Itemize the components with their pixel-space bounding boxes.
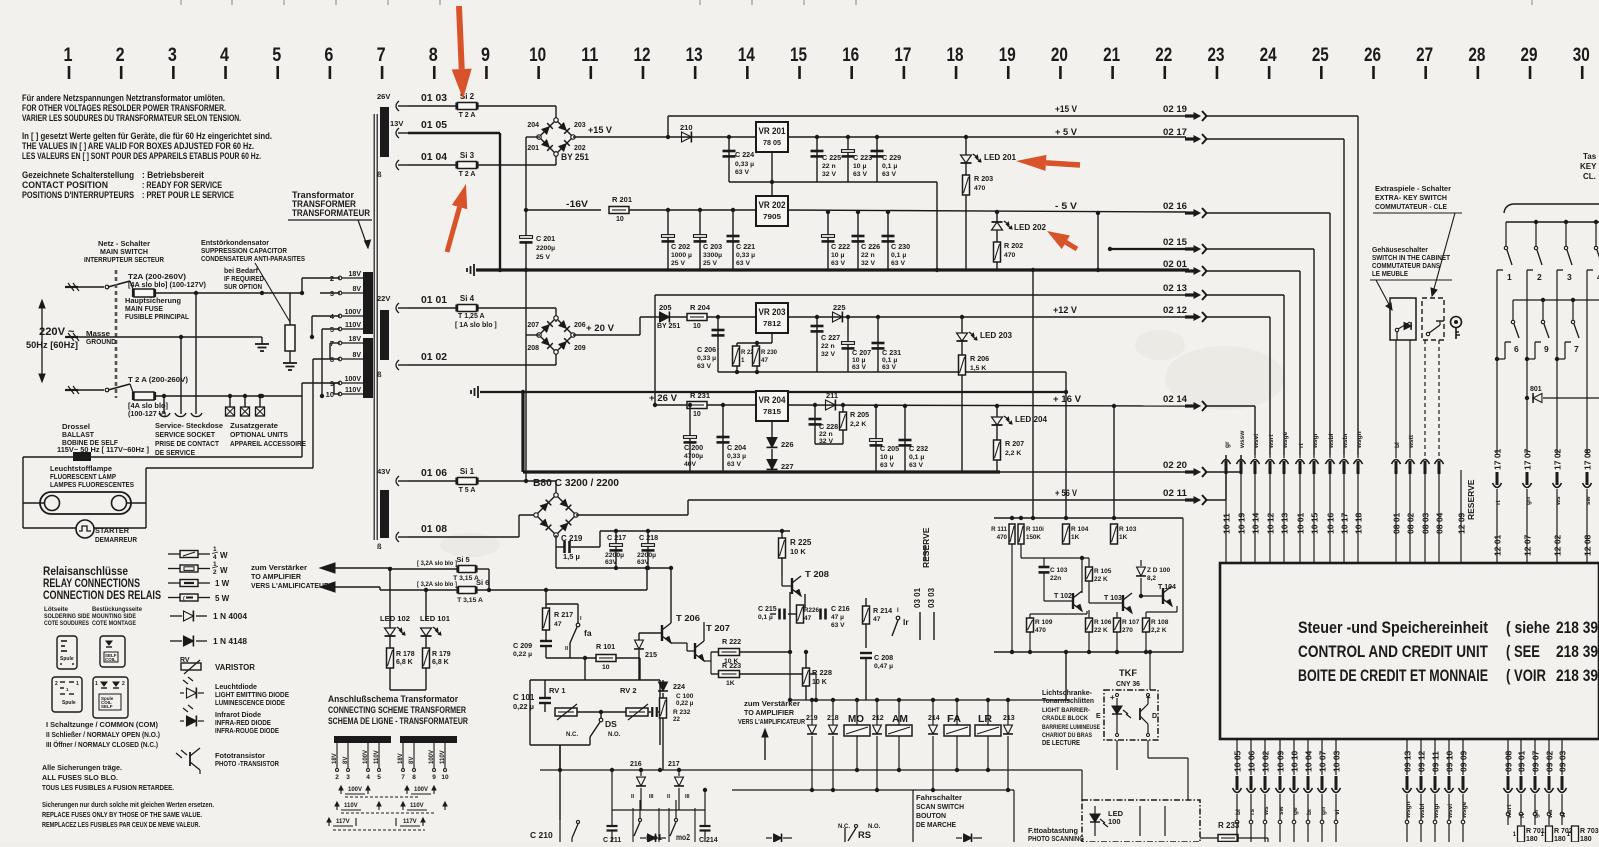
svg-text:215: 215 [645, 650, 657, 659]
svg-text:180: 180 [1554, 836, 1566, 842]
svg-text:110V: 110V [410, 803, 424, 809]
capacitor C217 [614, 529, 618, 533]
wire 0220 from bus [1200, 471, 1202, 473]
svg-text:8,2: 8,2 [1147, 575, 1156, 582]
svg-text:7905: 7905 [763, 212, 781, 221]
svg-text:63 V: 63 V [736, 260, 750, 267]
svg-text:+15 V: +15 V [588, 125, 613, 136]
svg-text:63V: 63V [637, 559, 650, 566]
svg-text:2: 2 [55, 681, 58, 687]
svg-text:3: 3 [168, 45, 177, 66]
svg-text:II: II [565, 646, 569, 652]
capacitor C230 [886, 210, 890, 214]
legend LED [187, 688, 197, 699]
svg-text:27: 27 [1416, 45, 1433, 66]
svg-text:N.C.: N.C. [566, 732, 578, 738]
svg-text:SUR OPTION: SUR OPTION [224, 282, 262, 291]
svg-text:R 203: R 203 [974, 174, 993, 183]
svg-text:R 107: R 107 [1122, 619, 1140, 626]
svg-text:1,5 µ: 1,5 µ [563, 552, 580, 561]
svg-text:LED 201: LED 201 [984, 153, 1017, 162]
svg-text:ge: ge [1292, 807, 1299, 815]
svg-text:10 04: 10 04 [1304, 750, 1314, 772]
capacitor C103 [1043, 558, 1045, 567]
svg-text:wsge: wsge [1461, 801, 1468, 819]
svg-text:C 207: C 207 [852, 348, 871, 357]
svg-text:17 02: 17 02 [1553, 448, 1563, 470]
svg-text:VERS L'AMLIFICATEUR: VERS L'AMLIFICATEUR [251, 581, 330, 590]
svg-text:201: 201 [527, 145, 539, 152]
keyboard mid bus [1513, 299, 1599, 301]
svg-text:C 203: C 203 [703, 242, 722, 251]
svg-text:T 3,15 A: T 3,15 A [457, 597, 483, 604]
svg-text:270: 270 [1122, 627, 1133, 634]
svg-text:TRANSFORMATEUR: TRANSFORMATEUR [292, 208, 370, 219]
svg-text:32 V: 32 V [822, 171, 836, 178]
svg-text:II Schließer / NORMALY OPEN (: II Schließer / NORMALY OPEN (N.O.) [46, 732, 160, 739]
svg-text:17 07: 17 07 [1523, 448, 1533, 470]
svg-text:gn: gn [1525, 497, 1532, 505]
svg-text:LED 101: LED 101 [420, 614, 450, 623]
svg-text:rt: rt [1495, 499, 1502, 505]
svg-text:II: II [667, 794, 671, 800]
svg-text:6: 6 [1514, 344, 1519, 354]
svg-text:ws: ws [1263, 806, 1270, 816]
svg-text:( VOIR: ( VOIR [1506, 667, 1546, 685]
svg-text:LED 203: LED 203 [980, 331, 1013, 340]
svg-text:24: 24 [1260, 45, 1277, 66]
svg-text:03 03: 03 03 [927, 587, 936, 608]
LED 204 [995, 404, 999, 408]
svg-text:09 09: 09 09 [1459, 750, 1469, 772]
svg-text:+15 V: +15 V [1055, 104, 1078, 115]
svg-text:wsge: wsge [1282, 431, 1289, 449]
svg-text:210: 210 [680, 123, 693, 132]
svg-text:01 05: 01 05 [421, 120, 447, 131]
svg-text:10 K: 10 K [790, 547, 806, 556]
svg-text:DE MARCHE: DE MARCHE [916, 820, 956, 829]
svg-text:Si 1: Si 1 [460, 467, 475, 476]
svg-text:R 178: R 178 [396, 651, 415, 658]
svg-text:R 204: R 204 [690, 303, 711, 312]
control and credit unit box [1220, 563, 1599, 739]
svg-text:25 V: 25 V [671, 260, 685, 267]
svg-text:Relaisanschlüsse: Relaisanschlüsse [43, 566, 128, 578]
svg-text:T 208: T 208 [805, 569, 829, 579]
main switch contact top [105, 285, 109, 289]
wire tap5 110V [321, 329, 323, 396]
svg-text:N.O.: N.O. [608, 732, 621, 738]
svg-text:TO AMPLIFIER: TO AMPLIFIER [251, 572, 302, 581]
svg-text:CONNECTION DES RELAIS: CONNECTION DES RELAIS [43, 590, 161, 602]
svg-text:5: 5 [377, 774, 381, 781]
switch fa [577, 604, 579, 623]
svg-text:214: 214 [928, 715, 940, 722]
connector column 10 03 below [1335, 739, 1337, 775]
svg-text:R 207: R 207 [1005, 439, 1024, 448]
capacitor C224 [727, 135, 731, 139]
svg-text:ß: ß [377, 370, 382, 379]
svg-text:W: W [220, 551, 228, 560]
svg-text:10: 10 [616, 216, 624, 223]
wire -5V rail out [788, 210, 1186, 212]
wire tap junctions mains [154, 292, 320, 294]
wire R217 tap [544, 588, 548, 592]
svg-text:C 219: C 219 [561, 534, 583, 543]
svg-text:02 12: 02 12 [1163, 305, 1187, 316]
svg-text:8V: 8V [409, 757, 415, 764]
diode arrow bottom 2 [774, 834, 782, 843]
svg-text:+ 20 V: + 20 V [586, 323, 615, 334]
VR204 ground pin diodes 226 227 [771, 421, 773, 437]
svg-text:Sicherungen nur durch solche m: Sicherungen nur durch solche mit gleiche… [42, 802, 214, 809]
svg-text:16: 16 [842, 45, 859, 66]
svg-text:ß: ß [377, 542, 382, 551]
svg-text:+: + [1110, 693, 1115, 702]
svg-text:R 231: R 231 [690, 391, 710, 400]
capacitor C228 [813, 403, 817, 407]
svg-text:12 08: 12 08 [1583, 534, 1593, 556]
rail 652 for T10x block [994, 651, 1183, 653]
svg-text:32 V: 32 V [821, 351, 835, 358]
bridge rectifier BY251 top [539, 120, 573, 154]
resistor R226 [797, 605, 804, 623]
connector column 10 09 below [1279, 739, 1281, 775]
svg-text:63 V: 63 V [891, 260, 905, 267]
schema 100V link right [406, 786, 408, 794]
wire y770 into LED100 box [1081, 770, 1083, 800]
svg-text:02 15: 02 15 [1163, 237, 1188, 248]
wire +16V rail [788, 405, 1186, 406]
legend resistor 1 W [168, 582, 180, 584]
svg-text:47: 47 [873, 616, 881, 623]
svg-text:T 207: T 207 [706, 623, 730, 633]
wire T207 collector [703, 622, 705, 641]
svg-text:ws: ws [1555, 496, 1562, 506]
svg-text:R 111: R 111 [991, 526, 1007, 533]
svg-text:C 218: C 218 [639, 533, 658, 542]
svg-text:10 05: 10 05 [1233, 750, 1243, 772]
svg-text:T 2 A (200-260V): T 2 A (200-260V) [128, 375, 189, 384]
svg-text:+ 5 V: + 5 V [1055, 127, 1078, 138]
connector column 09 10 below [1448, 739, 1450, 775]
capacitor C231 [876, 315, 880, 319]
svg-text:: PRET POUR LE SERVICE: : PRET POUR LE SERVICE [142, 190, 234, 201]
svg-text:C 227: C 227 [821, 333, 840, 342]
svg-text:R 103: R 103 [1119, 526, 1137, 533]
svg-text:2: 2 [335, 774, 339, 781]
svg-text:R 105: R 105 [1094, 568, 1112, 575]
svg-text:01 01: 01 01 [421, 295, 447, 306]
wire 56V filter rail [599, 531, 601, 547]
svg-text:2: 2 [116, 45, 125, 66]
svg-text:204: 204 [527, 122, 539, 129]
svg-text:17 01: 17 01 [1493, 448, 1503, 470]
capacitor C200 [688, 403, 692, 407]
svg-text:T 5 A: T 5 A [459, 487, 476, 494]
relay pin box C [52, 677, 82, 712]
svg-text:25 V: 25 V [703, 260, 717, 267]
svg-text:470: 470 [1004, 252, 1016, 259]
svg-text:217: 217 [668, 761, 680, 768]
svg-text:09 11: 09 11 [1431, 751, 1441, 772]
svg-text:18V: 18V [349, 271, 362, 278]
svg-text:C 208: C 208 [874, 653, 893, 662]
svg-text:63 V: 63 V [697, 363, 711, 370]
svg-text:801: 801 [1530, 386, 1542, 393]
svg-text:18: 18 [947, 45, 964, 66]
svg-text:BOITE DE CREDIT ET MONNAIE: BOITE DE CREDIT ET MONNAIE [1298, 667, 1488, 685]
regulator VR202 [756, 196, 788, 226]
switch 3 [1564, 220, 1568, 224]
svg-text:wsgr: wsgr [1433, 802, 1440, 819]
svg-text:Fahrschalter: Fahrschalter [916, 793, 962, 802]
primary winding bar 1 [363, 272, 373, 334]
wire tap7 tap8 bracket [330, 342, 340, 344]
svg-text:02 20: 02 20 [1163, 460, 1187, 471]
svg-text:22 n: 22 n [819, 431, 833, 438]
capacitor C225 [815, 135, 819, 139]
keyboard switch columns [1496, 270, 1498, 455]
wire 0104 to bridge [555, 151, 557, 165]
svg-text:02 13: 02 13 [1163, 283, 1187, 294]
svg-text:0,22 µ: 0,22 µ [513, 702, 534, 711]
svg-text:OPTIONAL UNITS: OPTIONAL UNITS [230, 430, 288, 439]
svg-text:wsvi: wsvi [1447, 804, 1454, 819]
wire TKF down wires [1082, 769, 1117, 771]
switch 2 [1534, 220, 1538, 224]
svg-text:STARTER: STARTER [95, 526, 130, 535]
orange arrow pointing left at LED 201 [1016, 155, 1046, 171]
svg-text:03 01: 03 01 [913, 587, 922, 608]
wire 0102 to bridge [408, 364, 556, 366]
svg-text:MOUNTING SIDE: MOUNTING SIDE [92, 613, 137, 620]
connector column 10 07 below [1321, 739, 1323, 775]
svg-text:1: 1 [1507, 272, 1512, 282]
svg-text:VERS L'AMPLIFICATEUR: VERS L'AMPLIFICATEUR [738, 719, 805, 726]
svg-text:Alle Sicherungen träge.: Alle Sicherungen träge. [42, 763, 122, 772]
svg-text:02 17: 02 17 [1163, 127, 1187, 138]
svg-text:C 205: C 205 [880, 444, 899, 453]
schema 110V link left [336, 802, 338, 810]
switch lr [896, 616, 900, 620]
wire lamp feed 2 [312, 359, 314, 468]
svg-text:22V: 22V [377, 294, 390, 303]
switch ds2 bottom [576, 820, 579, 823]
svg-text:( SEE: ( SEE [1506, 643, 1540, 661]
svg-text:209: 209 [574, 345, 586, 352]
svg-text:180: 180 [1580, 836, 1592, 842]
arrow up to amplifier [764, 735, 766, 760]
capacitor C204 [721, 403, 725, 407]
svg-text:470: 470 [997, 534, 1008, 541]
svg-text:R 108: R 108 [1151, 619, 1169, 626]
svg-text:117V: 117V [336, 819, 350, 825]
svg-text:+ 56 V: + 56 V [1055, 488, 1078, 499]
legend resistor half W [168, 568, 180, 570]
svg-text:T 2 A: T 2 A [459, 112, 476, 119]
switch DS [600, 712, 602, 718]
cabinet switch contact [1395, 328, 1398, 331]
svg-text:21: 21 [1103, 45, 1120, 66]
resistor R179 [423, 648, 430, 668]
secondary winding bar 22V [380, 310, 389, 360]
wire lamp feed 1 [301, 383, 303, 457]
resistor R203 [965, 163, 967, 175]
connector column 09 12 below [1420, 739, 1422, 775]
schema tap 9 [433, 743, 435, 768]
svg-text:FUSIBLE PRINCIPAL: FUSIBLE PRINCIPAL [125, 312, 189, 321]
svg-text:2200µ: 2200µ [637, 552, 656, 559]
svg-text:LUMINESCENCE DIODE: LUMINESCENCE DIODE [215, 700, 285, 707]
svg-text:+ 26 V: + 26 V [649, 393, 678, 404]
wire relay bus [790, 699, 1070, 701]
svg-text:10 10: 10 10 [1290, 750, 1300, 772]
capacitor C219 [563, 541, 566, 553]
svg-text:LR: LR [978, 713, 992, 725]
svg-text:63 V: 63 V [882, 364, 896, 371]
svg-text:8V: 8V [352, 286, 361, 293]
svg-text:7: 7 [1574, 344, 1579, 354]
resistor R225 [779, 538, 786, 558]
svg-text:CHARIOT DU BRAS: CHARIOT DU BRAS [1042, 732, 1093, 739]
svg-text:32 V: 32 V [861, 260, 875, 267]
resistor R110 [1018, 524, 1024, 544]
svg-text:100V: 100V [348, 787, 362, 793]
svg-text:ß: ß [377, 170, 382, 179]
svg-text:DS: DS [605, 719, 617, 729]
svg-text:KEY: KEY [1580, 162, 1597, 171]
svg-text:17: 17 [894, 45, 911, 66]
svg-text:RS: RS [858, 830, 871, 841]
svg-text:1000 µ: 1000 µ [671, 252, 692, 259]
svg-text:wstt: wstt [1408, 434, 1415, 449]
svg-text:SERVICE SOCKET: SERVICE SOCKET [155, 430, 215, 439]
svg-text:1 W: 1 W [215, 579, 230, 588]
svg-text:12 02: 12 02 [1553, 534, 1563, 556]
key symbol [1451, 317, 1462, 340]
svg-text:DE SERVICE: DE SERVICE [155, 448, 195, 457]
svg-text:vi: vi [1334, 809, 1341, 815]
svg-text:5: 5 [272, 45, 281, 66]
svg-text:VR 203: VR 203 [759, 307, 786, 317]
svg-text:C 232: C 232 [909, 444, 928, 453]
wire DS column down [559, 745, 561, 820]
svg-text:VARIER LES SOUDURES DU TRANSFO: VARIER LES SOUDURES DU TRANSFORMATEUR SE… [22, 113, 241, 124]
svg-text:Tonarmschlitten: Tonarmschlitten [1042, 698, 1094, 705]
svg-text:22 K: 22 K [1094, 576, 1108, 583]
connector column 09 02 below [1548, 739, 1550, 775]
svg-text:R 217: R 217 [554, 610, 573, 619]
switch 1 [1505, 222, 1507, 246]
svg-text:C 204: C 204 [727, 443, 746, 452]
svg-text:12: 12 [633, 45, 650, 66]
svg-text:INFRA-ROUGE DIODE: INFRA-ROUGE DIODE [215, 728, 279, 735]
svg-text:gn: gn [1320, 807, 1327, 815]
svg-text:10 µ: 10 µ [880, 454, 893, 461]
orange arrow pointing left at LED 202 [1047, 231, 1070, 249]
svg-text:T 102: T 102 [1054, 593, 1072, 600]
fuse bottom [134, 392, 154, 400]
svg-text:INTERRUPTEUR SECTEUR: INTERRUPTEUR SECTEUR [84, 255, 164, 264]
svg-text:R 214: R 214 [873, 606, 892, 615]
regulator VR203 [756, 303, 788, 333]
svg-text:Extraspiele - Schalter: Extraspiele - Schalter [1375, 184, 1451, 193]
svg-text:29: 29 [1521, 45, 1538, 66]
svg-text:C 228: C 228 [819, 422, 838, 431]
svg-text:T 2 A: T 2 A [459, 171, 476, 178]
mains phase wire bottom [65, 389, 78, 391]
svg-text:III: III [649, 794, 654, 800]
svg-text:10: 10 [529, 45, 546, 66]
svg-text:09 12: 09 12 [1417, 750, 1427, 772]
node -16V vertical / C201 [526, 136, 540, 138]
svg-text:LIGHT BARRIER-: LIGHT BARRIER- [1042, 707, 1090, 714]
wire 0215 thick [1110, 248, 1186, 250]
fuse Si3 [458, 162, 477, 169]
svg-text:Si 3: Si 3 [460, 151, 475, 160]
schema tap 10 [444, 743, 446, 768]
svg-text:2: 2 [122, 681, 125, 687]
schema winding bar right [400, 736, 457, 743]
svg-text:09 07: 09 07 [1531, 750, 1541, 772]
svg-text:MO: MO [848, 713, 864, 725]
schema 110V link right [402, 802, 404, 810]
svg-text:226: 226 [781, 440, 794, 449]
resistor R205 [841, 403, 845, 407]
svg-text:2200µ: 2200µ [605, 552, 624, 559]
svg-text:I Schaltzunge / COMMON (C: I Schaltzunge / COMMON (COM) [46, 722, 158, 729]
svg-text:2,2 K: 2,2 K [1151, 627, 1167, 634]
svg-text:[ 1A slo blo ]: [ 1A slo blo ] [455, 322, 497, 329]
orange arrow top pointing down at Si2 [452, 69, 472, 99]
svg-text:19: 19 [999, 45, 1016, 66]
schema tap 2 [336, 743, 338, 768]
legend diode 1N4148 [170, 640, 182, 642]
svg-text:224: 224 [673, 682, 685, 691]
svg-text:2,2 K: 2,2 K [850, 421, 866, 428]
svg-text:100V: 100V [414, 787, 428, 793]
svg-text:225: 225 [833, 303, 846, 312]
svg-text:R 202: R 202 [1004, 241, 1023, 250]
wire 0103 to bridge [555, 106, 557, 123]
svg-text:100V: 100V [345, 309, 362, 316]
svg-text:III: III [685, 794, 690, 800]
frame around DS RV block [530, 679, 660, 681]
svg-text:Tas: Tas [1583, 152, 1597, 161]
svg-text:3300µ: 3300µ [703, 252, 722, 259]
ground bus 0V middle [477, 386, 479, 398]
svg-text:0,1 µ: 0,1 µ [909, 454, 924, 461]
wires T10x columns [1011, 544, 1013, 652]
svg-text:10 µ: 10 µ [852, 357, 865, 364]
svg-text:63 V: 63 V [909, 462, 923, 469]
svg-text:12 01: 12 01 [1493, 534, 1503, 556]
svg-text:Infrarot Diode: Infrarot Diode [215, 712, 261, 719]
svg-text:09 13: 09 13 [1403, 750, 1413, 772]
LED 201 [964, 135, 968, 139]
wire -16V rail [524, 208, 528, 212]
svg-text:5 W: 5 W [215, 594, 230, 603]
svg-text:22n: 22n [1050, 575, 1061, 582]
legend diode 1N4004 [170, 615, 182, 617]
connector column 09 11 below [1434, 739, 1436, 775]
rail 518 for T10x block [994, 517, 1183, 519]
wire bottom distribution 2 [732, 789, 1014, 791]
svg-text:N.O.: N.O. [868, 824, 881, 830]
fuse Si1 [458, 478, 477, 485]
svg-text:18V: 18V [349, 336, 362, 343]
